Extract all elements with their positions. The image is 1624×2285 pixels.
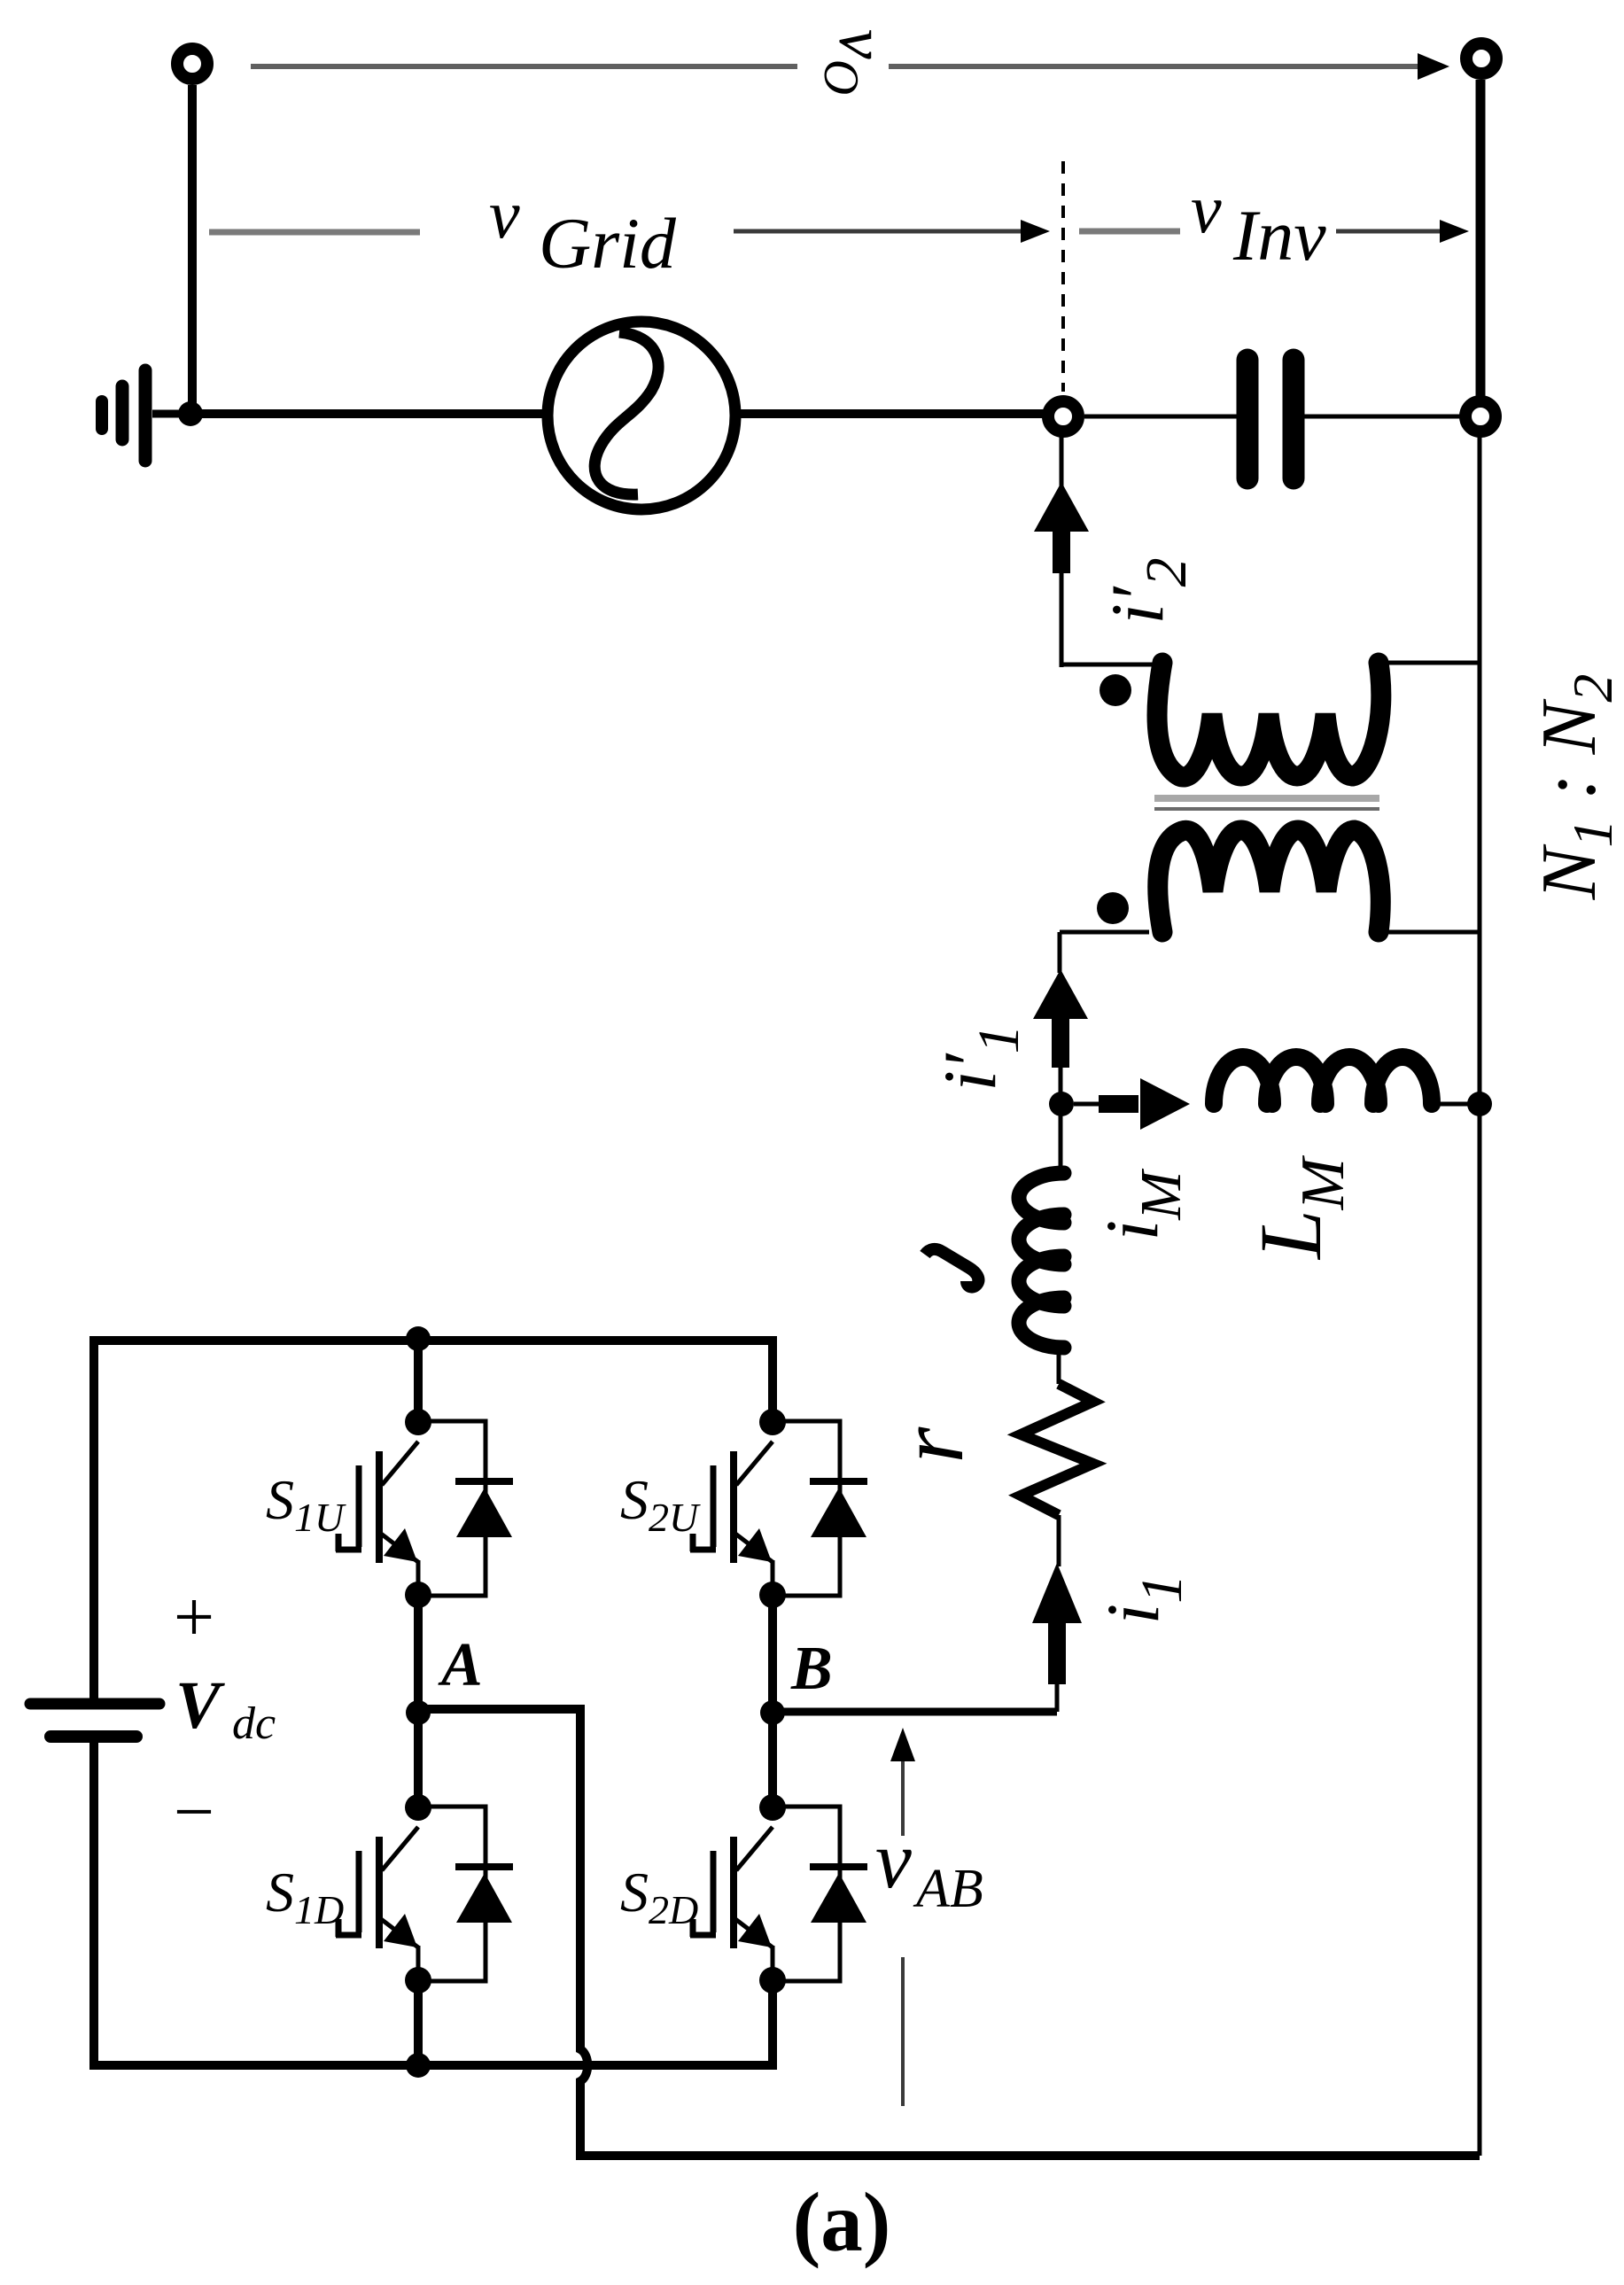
current arrow i'1 xyxy=(1033,969,1088,1104)
label i'1 (rotated) xyxy=(929,1024,1031,1091)
svg-text:dc: dc xyxy=(232,1698,276,1749)
junction LM right xyxy=(1467,1092,1492,1116)
transformer primary winding N1 xyxy=(1158,830,1380,932)
resistor r xyxy=(1021,1384,1093,1515)
phase dot secondary xyxy=(1100,674,1131,706)
wire primary left end down xyxy=(1060,932,1149,973)
label r (rotated) xyxy=(879,1426,983,1463)
wire primary right end to right side xyxy=(1376,930,1480,935)
dashed separator line xyxy=(1061,161,1065,392)
wire l to r xyxy=(1057,1346,1061,1384)
top rail wire xyxy=(89,1341,773,1422)
svg-text:Grid: Grid xyxy=(539,203,677,284)
arrow v_Inv shaft left segment xyxy=(1079,229,1180,235)
wire secondary right end to right side xyxy=(1382,661,1480,665)
label N1 : N2 (rotated) xyxy=(1527,674,1624,901)
bottom rail wire xyxy=(89,1986,773,2065)
current arrow iM xyxy=(1074,1078,1190,1130)
wire AC source to cap node xyxy=(735,409,1045,418)
svg-text:Inv: Inv xyxy=(1232,195,1326,276)
DC source Vdc battery xyxy=(30,1704,159,1737)
junction bottom rail / leg A xyxy=(406,2053,431,2078)
junction top rail / leg A xyxy=(406,1326,431,1351)
current arrow i'2 xyxy=(1034,482,1089,667)
leg A wires xyxy=(414,1341,423,2065)
svg-text:r: r xyxy=(879,1426,983,1463)
label i1 (rotated) xyxy=(1092,1574,1194,1625)
wire cap node to capacitor xyxy=(1084,415,1237,419)
arrow v_Inv shaft right segment xyxy=(1336,229,1449,234)
ground symbol xyxy=(102,370,187,461)
wire battery + up to top rail xyxy=(89,1336,98,1698)
svg-text:v: v xyxy=(1191,170,1222,247)
label v_o (rotated) xyxy=(813,29,899,95)
arrow v_Grid shaft right segment xyxy=(734,229,1028,234)
transistor S1U (IGBT with diode) xyxy=(336,1409,513,1608)
current arrow i1 xyxy=(1032,1563,1082,1712)
svg-text:(a): (a) xyxy=(793,2175,891,2269)
arrow v_Grid shaft left segment xyxy=(209,229,420,236)
svg-text:V: V xyxy=(175,1668,225,1743)
transistor S2U (IGBT with diode) xyxy=(690,1409,867,1608)
capacitor C xyxy=(1247,360,1294,478)
svg-text:A: A xyxy=(438,1631,483,1699)
wire junction down to inductor l xyxy=(1059,1104,1063,1175)
arrow v_Inv head xyxy=(1440,220,1469,243)
wire node B to i1 xyxy=(773,1708,1057,1716)
label LM (rotated) xyxy=(1241,1154,1357,1261)
wire ground bus to AC source xyxy=(190,409,548,418)
label iM (rotated) xyxy=(1091,1168,1193,1241)
wire terminal T2 down to right node xyxy=(1476,80,1486,396)
wire LM to right side xyxy=(1432,1102,1480,1107)
arrow v_Grid head xyxy=(1021,220,1050,243)
terminal T2 (top-right output terminal) xyxy=(1466,43,1496,74)
svg-text:N1 : N2: N1 : N2 xyxy=(1527,674,1624,901)
inductor LM xyxy=(1214,1057,1432,1104)
node B junction xyxy=(760,1700,785,1725)
svg-text:+: + xyxy=(174,1576,214,1657)
svg-text:AB: AB xyxy=(913,1859,983,1919)
wire right node down right side xyxy=(1478,437,1482,2156)
svg-text:−: − xyxy=(174,1771,214,1852)
transformer core lines xyxy=(1154,795,1379,802)
svg-text:v: v xyxy=(489,175,520,253)
junction ground-bus xyxy=(178,401,203,426)
wire capacitor to right node xyxy=(1304,415,1460,419)
phase dot primary xyxy=(1097,892,1129,924)
transistor S1D (IGBT with diode) xyxy=(336,1794,513,1994)
arrow v_o shaft right segment xyxy=(889,64,1430,69)
transistor S2D (IGBT with diode) xyxy=(690,1794,867,1994)
wire battery - down to bottom rail xyxy=(89,1743,98,2070)
terminal T1 (top-left output terminal) xyxy=(177,49,207,79)
svg-text:v: v xyxy=(875,1815,912,1905)
label l (rotated) xyxy=(925,1249,978,1287)
arrow v_o shaft left segment xyxy=(251,64,797,69)
transformer secondary winding N2 xyxy=(1157,663,1381,777)
node N2 (right cap node, open circle) xyxy=(1465,401,1496,431)
inductor l (leakage) xyxy=(1019,1173,1064,1348)
arrow vAB xyxy=(890,1728,915,2106)
wire from terminal T1 down to ground bus xyxy=(188,85,197,414)
node N1 (AC/cap/transformer tap, open circle) xyxy=(1048,401,1078,431)
wire r to i1 arrow xyxy=(1057,1515,1061,1566)
junction iM node xyxy=(1049,1092,1074,1116)
wire cap node down to i2 arrow xyxy=(1060,431,1064,496)
wire node A to output (down and right) xyxy=(418,1709,1480,2156)
AC source VGrid xyxy=(548,322,735,509)
node A junction xyxy=(406,1700,431,1725)
arrow v_o head xyxy=(1418,53,1449,80)
svg-text:B: B xyxy=(790,1635,833,1703)
leg B wires xyxy=(768,1595,777,1807)
label i'2 (rotated) xyxy=(1096,557,1199,624)
wire to secondary winding xyxy=(1060,663,1154,667)
